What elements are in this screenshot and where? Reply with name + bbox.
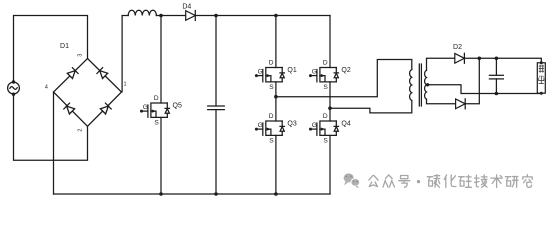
wire top rail to bus capacitor bbox=[215, 16, 217, 107]
diode D4 bbox=[182, 3, 195, 20]
watermark wechat icon bbox=[344, 173, 360, 188]
svg-text:Q4: Q4 bbox=[341, 121, 350, 128]
wire left-leg midpoint to transformer primary top bbox=[276, 60, 412, 97]
svg-text:Q2: Q2 bbox=[341, 67, 350, 74]
junction dot left leg midpoint bbox=[274, 95, 278, 99]
svg-text:D1: D1 bbox=[60, 43, 69, 50]
wire inductor to node bbox=[156, 15, 161, 17]
wire center tap to output bottom rail bbox=[427, 85, 542, 94]
wire Q1 source to Q3 drain bbox=[275, 82, 277, 121]
transformer T1 primary winding bbox=[410, 70, 412, 101]
transformer core bbox=[419, 64, 421, 106]
wire Q2 source to Q4 drain bbox=[329, 82, 331, 121]
junction dot Q5 bottom bbox=[159, 192, 163, 196]
wire lower diode cathode up to top rail bbox=[465, 58, 479, 104]
transistor Q2 bbox=[309, 60, 351, 91]
svg-text:1: 1 bbox=[123, 81, 126, 87]
wire Q5 source to bottom rail bbox=[160, 117, 162, 194]
junction dot output cap top bbox=[495, 57, 499, 61]
inductor L1 bbox=[128, 10, 156, 15]
capacitor C1 (bus) bbox=[208, 106, 225, 110]
transistor Q4 bbox=[309, 113, 351, 144]
wire top rail corner to Q2 drain bbox=[329, 16, 331, 68]
junction dot right leg midpoint bbox=[328, 106, 332, 110]
svg-text:4: 4 bbox=[45, 84, 48, 90]
wire node to D4 anode bbox=[161, 15, 186, 17]
wire D2 cathode along output top rail to load bbox=[464, 58, 541, 63]
junction dot boost node bbox=[159, 14, 163, 18]
wire from AC source bottom to bridge pin 2 bbox=[14, 94, 88, 160]
wire right-leg midpoint to transformer primary bottom bbox=[330, 101, 412, 113]
load (output) box bbox=[537, 61, 545, 94]
wire Q3 source to bottom rail bbox=[275, 135, 277, 194]
junction dot bus cap top bbox=[214, 14, 218, 18]
junction dot output cap bottom bbox=[495, 92, 499, 96]
transistor Q5 bbox=[140, 95, 182, 126]
AC source V1 bbox=[8, 80, 20, 96]
bridge diode top-left bbox=[67, 68, 78, 79]
wire top rail to Q1 drain bbox=[275, 16, 277, 68]
wire Q4 source to bottom rail corner bbox=[329, 135, 331, 194]
transistor Q3 bbox=[255, 113, 297, 144]
wire D4 cathode to bridge leg corner bbox=[195, 15, 330, 17]
wire from AC source top to bridge pin 3 bbox=[14, 16, 88, 83]
bridge diode top-right bbox=[97, 68, 108, 79]
diode D3 (lower output) bbox=[456, 99, 466, 109]
svg-text:Q3: Q3 bbox=[287, 121, 296, 128]
svg-text:2: 2 bbox=[77, 129, 83, 132]
junction dot lower-diode branch joins top rail bbox=[478, 57, 482, 61]
watermark text 公众号·碳化硅技术研究 bbox=[369, 175, 532, 188]
wire bridge pin 4 to bottom rail bbox=[53, 92, 55, 194]
svg-text:D4: D4 bbox=[182, 3, 191, 10]
wire bridge pin 1 up to inductor bbox=[122, 16, 128, 92]
transformer T1 secondary winding bbox=[425, 70, 427, 99]
wire bus capacitor to bottom rail bbox=[215, 110, 217, 194]
wire output cap to bottom rail bbox=[495, 79, 497, 94]
junction dot secondary center tap bbox=[426, 83, 429, 86]
wire boost node down to Q5 drain bbox=[160, 16, 162, 104]
svg-text:3: 3 bbox=[77, 54, 83, 57]
bridge diode bottom-right bbox=[100, 103, 111, 114]
junction dot Q1 leg top bbox=[274, 14, 278, 18]
transistor Q1 bbox=[255, 60, 297, 91]
junction dot cap bottom bbox=[214, 192, 218, 196]
capacitor C2 (output) bbox=[489, 75, 503, 79]
svg-text:Q5: Q5 bbox=[173, 103, 182, 110]
wire secondary top to D2 anode bbox=[427, 58, 455, 70]
bottom rail bbox=[54, 193, 331, 195]
svg-text:Q1: Q1 bbox=[287, 67, 296, 74]
bridge rectifier D1 diamond bbox=[54, 59, 122, 127]
wire top rail to output cap bbox=[495, 58, 497, 75]
bridge diode bottom-left bbox=[64, 103, 75, 114]
svg-text:D2: D2 bbox=[453, 44, 462, 51]
junction dot Q3 bottom bbox=[274, 192, 278, 196]
wire secondary bottom to lower diode bbox=[427, 99, 456, 104]
diode D2 bbox=[453, 44, 464, 64]
